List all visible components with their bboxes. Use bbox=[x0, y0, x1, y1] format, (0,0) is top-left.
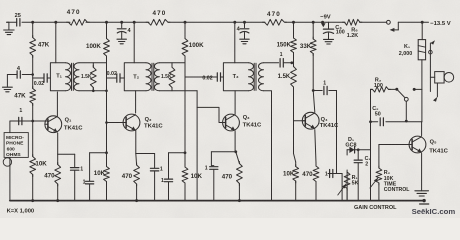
resistor 1.5K stage1 bbox=[81, 63, 96, 91]
transistor Q3 TK41C bbox=[223, 114, 262, 131]
capacitor C1 2 bbox=[354, 150, 370, 201]
supply -9V tap bbox=[320, 15, 331, 28]
microphone capsule bbox=[3, 121, 11, 201]
node Q1 emitter junction bbox=[56, 199, 59, 202]
node D1 junction bbox=[357, 148, 360, 151]
resistor 1.5K stage2 bbox=[161, 63, 175, 91]
transformer T1 core bbox=[72, 63, 74, 90]
node 47K-junction bbox=[31, 73, 34, 76]
node rail-150K bbox=[292, 21, 295, 24]
ground under cap4 stage2 bbox=[240, 39, 249, 44]
node Q3 emitter junction bbox=[234, 131, 237, 153]
wire rail to T3 bbox=[234, 22, 236, 63]
ground Q5 emitter bbox=[415, 153, 429, 196]
transistor Q2 TK41C bbox=[123, 114, 163, 131]
node contact fixed bbox=[413, 88, 422, 91]
wire Q5 base line bbox=[379, 144, 412, 146]
wire T1sec to Q2 base bbox=[105, 63, 126, 153]
node rail-T3 bbox=[233, 21, 236, 24]
resistor 33K bbox=[300, 22, 316, 90]
node rail-100K2 bbox=[184, 21, 187, 24]
resistor 470 first bbox=[67, 9, 90, 25]
resistor 100K stage1 bbox=[86, 22, 109, 63]
potentiometer R2 10K time bbox=[370, 145, 410, 201]
node stage2 bias lower bbox=[184, 151, 187, 154]
capacitor 4 input bbox=[10, 66, 33, 78]
wire rail to T2 bbox=[133, 22, 135, 63]
transformer T2 primary loop bbox=[124, 63, 146, 91]
node -13.5V junction bbox=[421, 21, 424, 24]
node Q3 emitter rail bbox=[238, 199, 241, 202]
transistor Q1 TK41C bbox=[45, 116, 83, 133]
capacitor 0.02 stage1 bbox=[33, 74, 51, 87]
transformer T2 secondary winding bbox=[154, 63, 159, 91]
node rail-100K1 bbox=[105, 21, 108, 24]
resistor R6 1.2K bbox=[343, 19, 363, 39]
wire top supply rail bbox=[22, 21, 387, 23]
transistor Q5 TK41C bbox=[409, 136, 449, 155]
resistor 470 Q1 emitter bbox=[44, 133, 60, 201]
relay contact gain switch bbox=[395, 88, 408, 120]
transformer T2 core bbox=[152, 63, 154, 90]
wire bell lead right bbox=[433, 83, 437, 102]
resistor 47K upper bbox=[30, 22, 50, 74]
resistor 470 Q3 emitter bbox=[222, 152, 243, 201]
resistor 150K bbox=[277, 22, 297, 63]
capacitor 4 stage1 bypass bbox=[117, 22, 131, 38]
resistor 47K lower bbox=[14, 75, 35, 122]
resistor 470 Q2 emitter bbox=[122, 131, 140, 201]
node rail-T2 bbox=[133, 21, 136, 24]
wire T2sec ext to Q3 bbox=[197, 91, 226, 201]
capacitor 1 coupling Q4 bbox=[313, 80, 336, 94]
resistor R3 100 bbox=[371, 78, 397, 93]
relay coil K1 2000 bbox=[399, 40, 426, 60]
node rail-47K bbox=[31, 21, 34, 24]
wire main right vertical bbox=[370, 89, 372, 200]
transformer T1 primary winding bbox=[66, 63, 71, 91]
wire stage2 bias down bbox=[184, 63, 186, 153]
node T1-sec-bottom bbox=[92, 90, 95, 93]
capacitor 0.02 stage3 bbox=[185, 73, 223, 82]
label K scale bbox=[7, 208, 35, 214]
relay contact top (to -13.5V) bbox=[387, 20, 429, 32]
node Q4 collector junction bbox=[312, 89, 315, 112]
bell bbox=[430, 72, 453, 83]
wire rail to T1 bbox=[55, 22, 57, 63]
potentiometer R1 5K gain bbox=[338, 170, 359, 201]
transformer T3 secondary bottom bbox=[264, 91, 272, 201]
transformer T3 core bbox=[254, 63, 256, 90]
transformer T3 primary winding bbox=[249, 63, 254, 91]
ground under cap4 stage1 bbox=[117, 39, 126, 44]
resistor 10K stage1-right bbox=[94, 153, 110, 201]
node mic-bias junction bbox=[31, 120, 34, 123]
resistor 470 third bbox=[263, 11, 287, 25]
ground under C3 bbox=[324, 39, 334, 44]
resistor 10K stage2-right bbox=[182, 153, 202, 201]
node Q5 collector bbox=[421, 121, 424, 135]
ground input top bbox=[4, 22, 14, 34]
node Q2 emitter rail bbox=[135, 199, 138, 202]
transformer T1 secondary loop bbox=[79, 63, 107, 91]
capacitor 1 mic bbox=[19, 108, 23, 125]
node rail-C42 bbox=[243, 21, 246, 24]
label gain control bbox=[354, 205, 397, 211]
resistor 10K Q4 bias bbox=[283, 154, 299, 201]
label -13.5V bbox=[430, 21, 451, 27]
wire coupling down bbox=[336, 91, 338, 174]
capacitor C2 50 bbox=[369, 106, 422, 126]
wire ground rail bbox=[10, 200, 424, 202]
capacitor 1 Q4 emitter bbox=[325, 170, 342, 201]
transformer T1 primary loop bbox=[50, 63, 65, 91]
node T3 sec junction bbox=[290, 61, 293, 64]
transformer T3 primary loop bbox=[223, 63, 248, 91]
node ground end bbox=[420, 199, 429, 204]
diode D1 GC8 bbox=[345, 137, 370, 201]
node 10K1 rail bbox=[31, 199, 34, 202]
transformer T1 secondary winding bbox=[74, 63, 79, 91]
transformer T3 secondary winding bbox=[259, 63, 264, 91]
capacitor 1 Q3 emitter bbox=[205, 152, 236, 201]
capacitor C3 100 bbox=[323, 22, 344, 39]
wire -13.5V to K1 bbox=[421, 22, 423, 39]
transformer T3 secondary top bbox=[264, 52, 294, 67]
node rail-C41 bbox=[120, 21, 123, 24]
capacitor 1 stage2 bias bypass bbox=[161, 153, 185, 201]
ground input lower bbox=[3, 75, 13, 92]
microphone box bbox=[4, 133, 28, 159]
transistor Q4 TK41C bbox=[302, 112, 339, 129]
node stage1 bias lower bbox=[105, 151, 108, 154]
wire bell lead left bbox=[429, 40, 435, 91]
capacitor 1 stage1 bias bypass bbox=[83, 153, 107, 201]
capacitor 25 bbox=[7, 13, 21, 26]
wire Q1 collector bbox=[56, 92, 58, 116]
resistor 470 second bbox=[146, 10, 170, 25]
resistor 10K stage1-bias bbox=[30, 121, 47, 201]
transformer T2 primary winding bbox=[146, 63, 151, 91]
wire mic line bbox=[10, 120, 48, 122]
transformer T2 secondary loop bbox=[159, 63, 197, 91]
resistor 1.5K stage3 bbox=[278, 63, 297, 121]
wire K1 to contact bbox=[421, 60, 423, 122]
capacitor 1 Q2 emitter bbox=[136, 154, 163, 201]
resistor 100K stage2 bbox=[182, 22, 204, 63]
wire 1.5K to Q4 base bbox=[294, 121, 306, 154]
wire Q2 collector bbox=[135, 91, 137, 113]
resistor 470 Q4 emitter bbox=[302, 130, 319, 201]
capacitor 0.02 stage2 bbox=[107, 71, 125, 82]
node rail-T1 bbox=[54, 21, 57, 24]
capacitor 4 stage2 bypass bbox=[237, 22, 249, 38]
capacitor 1 Q1 emitter bbox=[58, 154, 84, 200]
wire Q3 collector bbox=[234, 91, 236, 114]
watermark SeekIC.com bbox=[412, 207, 456, 216]
node rail-33K bbox=[312, 21, 315, 24]
